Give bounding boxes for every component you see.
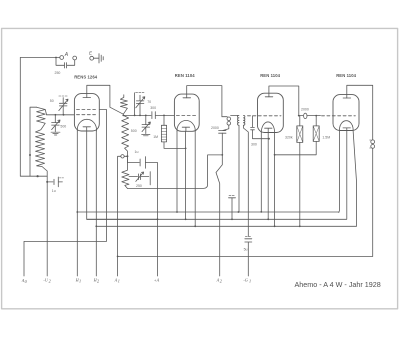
transformer T1 primary [231, 115, 239, 212]
heater tube1 [83, 127, 91, 131]
svg-text:1: 1 [249, 279, 251, 284]
capacitor 1u (tube1 cathode) [46, 181, 48, 183]
capacitor 50 variable [59, 98, 67, 115]
svg-text:A: A [64, 52, 69, 58]
capacitor 300 series [152, 112, 175, 119]
wire bus H2 [87, 218, 347, 220]
jack J1 phones [227, 117, 231, 121]
wire antenna bypass [56, 58, 75, 66]
svg-text:300: 300 [150, 106, 156, 110]
grid dashes tube3 [248, 115, 282, 117]
wire tube2 plate lead [187, 86, 222, 117]
svg-text:1u: 1u [135, 150, 139, 154]
wire tube4 plate lead [347, 85, 373, 140]
svg-text:1.5M: 1.5M [322, 136, 330, 140]
wire tube1 screen feed [99, 109, 106, 241]
capacitor 5u [245, 239, 252, 276]
tube V3 REN 1104 envelope [258, 93, 284, 132]
svg-text:0: 0 [25, 279, 28, 284]
svg-text:+A: +A [154, 277, 160, 282]
cathode dome tube4 [340, 121, 354, 131]
wire 320k down [299, 142, 301, 226]
wire tube2 cathode left leg [176, 131, 178, 212]
svg-text:300: 300 [251, 143, 257, 147]
inductor L3 bias coil [122, 157, 129, 188]
svg-text:2: 2 [49, 279, 51, 284]
node L2 junction [122, 115, 124, 117]
wire tube3 heater lead [267, 133, 269, 220]
svg-text:REN 1104: REN 1104 [260, 73, 280, 78]
wire bias coil bottom [127, 155, 222, 189]
capacitor 70 variable [136, 95, 144, 115]
wire mid grid line [123, 114, 151, 116]
capacitor 250 variable (bias) [129, 172, 150, 185]
svg-text:Ahemo - A 4 W - Jahr 1928: Ahemo - A 4 W - Jahr 1928 [295, 280, 381, 289]
svg-text:1: 1 [79, 279, 81, 284]
svg-text:REN 1104: REN 1104 [336, 73, 356, 78]
svg-text:1u: 1u [52, 189, 56, 193]
wire ring left to terminal A1 [118, 156, 121, 276]
grid dashes tube2 [176, 115, 197, 117]
terminal A2 [73, 56, 77, 60]
svg-text:-G: -G [243, 277, 247, 282]
ground [99, 54, 103, 63]
wire tube3 cathode left leg [260, 133, 262, 212]
capacitor 250 (antenna) [65, 63, 67, 68]
tube V2 REN 1104 envelope [174, 94, 199, 131]
svg-text:2: 2 [97, 279, 99, 284]
wire tube3 cathode right leg [274, 133, 276, 227]
svg-text:250: 250 [136, 184, 142, 188]
heater tube3 [265, 128, 272, 132]
svg-text:2000: 2000 [301, 108, 309, 112]
svg-text:REN 1104: REN 1104 [175, 73, 195, 78]
svg-text:2: 2 [220, 279, 222, 284]
wire jack down [372, 148, 374, 256]
resistor 320k [299, 116, 301, 126]
wire tube2 heater lead [185, 131, 187, 219]
grid dashes tube1 [77, 110, 96, 115]
wire tube3 plate lead [269, 86, 299, 116]
svg-text:70: 70 [147, 100, 151, 104]
svg-text:500: 500 [60, 124, 66, 128]
capacitor 2000 (right, coupling) [299, 115, 303, 117]
svg-text:1: 1 [118, 279, 120, 284]
node 1M tap [163, 115, 165, 117]
svg-text:50: 50 [50, 99, 54, 103]
node ring (cathode bias) [121, 155, 124, 158]
inductor L1 antenna coil [30, 107, 37, 176]
jack J2 loudspeaker [371, 140, 375, 144]
transformer T1 secondary [243, 115, 248, 236]
node 500b tap [145, 115, 147, 117]
node coil tap [37, 175, 39, 177]
capacitor 500 variable [52, 115, 60, 132]
wire bus H5 [118, 255, 373, 257]
capacitor 500b variable [142, 115, 150, 133]
node 50 tap [63, 114, 65, 116]
node 500 tap [55, 114, 57, 116]
wire antenna left drop [20, 58, 47, 177]
wire ring right [124, 155, 127, 157]
node plate3 [298, 115, 300, 117]
wire bus H3 [96, 225, 356, 227]
svg-text:320k: 320k [285, 136, 293, 140]
wire 1M to cathode [164, 142, 186, 149]
svg-text:1M: 1M [153, 135, 158, 139]
cathode dome tube3 [261, 122, 274, 133]
wire tube1 cathode right leg [95, 131, 97, 276]
cathode dome tube1 [77, 119, 96, 131]
svg-text:E: E [89, 51, 93, 56]
svg-text:RENS 1264: RENS 1264 [74, 74, 98, 79]
svg-text:500: 500 [131, 129, 137, 133]
wire tube4 heater lead [346, 131, 348, 219]
wire 1.5M to cathode [275, 141, 317, 154]
node 70 tap [139, 115, 141, 117]
node antenna junction [55, 57, 57, 59]
wire bus H4 [24, 241, 106, 276]
wire bus H1 [77, 211, 339, 213]
cathode dome tube2 [177, 120, 195, 131]
inductor L2a tuned coil upper [120, 95, 127, 114]
svg-text:5u: 5u [244, 247, 248, 251]
svg-text:2000: 2000 [211, 126, 219, 130]
terminal E [90, 56, 94, 60]
wire terminal +A [157, 219, 159, 276]
svg-text:250: 250 [55, 71, 61, 75]
wire grid bus tube1 [47, 114, 75, 116]
resistor 1M [163, 115, 165, 125]
wire tube1 heater lead [87, 131, 158, 219]
capacitor 300 (grid tube3) [251, 116, 269, 139]
resistor 1.5M [315, 115, 317, 117]
wire 2000 down to terminal A2 [216, 133, 222, 276]
wire tube2 cathode right leg [194, 131, 196, 226]
wire grid tube4 dashed [322, 115, 356, 117]
wire tube4 cathode left leg [338, 131, 341, 213]
capacitor stub (jack bypass) [229, 198, 236, 220]
wire antenna feed [20, 57, 60, 59]
capacitor 1u (tube2 cathode) [127, 156, 157, 219]
tube V1 RENS 1264 envelope [74, 94, 99, 131]
inductor L2b tuned coil lower [122, 115, 129, 155]
wire tube1 cathode left leg [76, 131, 78, 276]
tube V4 REN 1104 envelope [333, 95, 359, 131]
wire tube4 cathode right leg [353, 131, 356, 227]
wire tube1 plate lead [87, 85, 124, 114]
terminal A1 [60, 56, 64, 60]
heater tube2 [182, 127, 189, 131]
heater tube4 [343, 128, 350, 131]
capacitor 2000 (left) [219, 125, 229, 133]
wire earth [94, 57, 99, 59]
